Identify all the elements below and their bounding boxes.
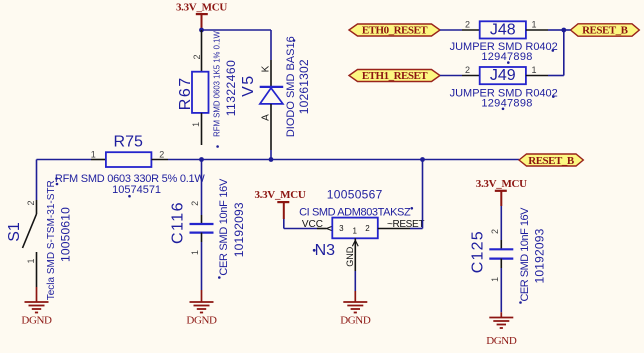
capacitor C125 bbox=[470, 206, 547, 304]
svg-text:1: 1 bbox=[190, 250, 200, 255]
power 3.3V_MCU above N3 bbox=[254, 189, 305, 219]
ground DGND under N3 bbox=[340, 291, 371, 326]
svg-text:12947898: 12947898 bbox=[481, 51, 532, 63]
svg-text:2: 2 bbox=[490, 229, 500, 234]
svg-text:12947898: 12947898 bbox=[481, 98, 532, 110]
svg-text:DGND: DGND bbox=[340, 314, 371, 326]
wire J48 pin1 to node bbox=[526, 29, 548, 31]
svg-text:CI SMD ADM803TAKSZ: CI SMD ADM803TAKSZ bbox=[299, 207, 411, 219]
svg-text:3: 3 bbox=[339, 224, 344, 233]
wire 3.3V to N3 VCC bbox=[283, 219, 285, 229]
svg-text:1: 1 bbox=[490, 277, 500, 282]
wire N3 ~RESET up to rail node bbox=[378, 228, 410, 230]
node junction at top of R67 bbox=[199, 28, 204, 33]
svg-text:K: K bbox=[261, 65, 272, 72]
svg-text:RFM SMD 0603 1K5 1% 0.1W: RFM SMD 0603 1K5 1% 0.1W bbox=[212, 30, 221, 136]
ground DGND under C125 bbox=[486, 312, 517, 347]
svg-text:S1: S1 bbox=[6, 222, 23, 242]
wire V5 bottom to rail bbox=[270, 150, 272, 160]
svg-text:DIODO SMD BAS16: DIODO SMD BAS16 bbox=[285, 36, 297, 137]
svg-text:2: 2 bbox=[192, 54, 202, 59]
wire node to RESET_B flag bbox=[564, 29, 571, 31]
svg-text:1: 1 bbox=[26, 258, 36, 263]
svg-text:3.3V_MCU: 3.3V_MCU bbox=[476, 178, 527, 190]
svg-text:1: 1 bbox=[91, 149, 96, 159]
svg-text:RESET_B: RESET_B bbox=[582, 25, 629, 37]
svg-text:11322460: 11322460 bbox=[224, 60, 238, 117]
svg-text:2: 2 bbox=[190, 201, 200, 206]
op-amp U1 / supervisor IC N3 bbox=[299, 187, 424, 271]
svg-text:VCC: VCC bbox=[302, 219, 323, 230]
power 3.3V_MCU above C125 bbox=[476, 178, 527, 206]
node junction N3 branch bbox=[420, 157, 425, 162]
ground DGND under S1 bbox=[21, 287, 52, 326]
svg-text:3.3V_MCU: 3.3V_MCU bbox=[176, 2, 227, 14]
ground DGND under C116 bbox=[186, 290, 217, 326]
svg-text:ETH0_RESET: ETH0_RESET bbox=[362, 25, 428, 37]
svg-text:CER SMD 10nF 16V: CER SMD 10nF 16V bbox=[218, 178, 230, 276]
wire C125 to ground bbox=[500, 268, 502, 312]
flag RESET_B middle bbox=[519, 154, 583, 167]
svg-text:1: 1 bbox=[191, 122, 201, 127]
jumper J49 bbox=[450, 65, 558, 110]
svg-text:2: 2 bbox=[365, 224, 370, 233]
svg-text:10574571: 10574571 bbox=[112, 184, 161, 196]
wire from R67 top node to V5 top bbox=[202, 29, 272, 31]
wire node down to J49 pin1 bbox=[563, 30, 565, 76]
svg-text:R67: R67 bbox=[177, 76, 194, 110]
diode V5 bbox=[240, 36, 311, 150]
flag ETH0_RESET bbox=[349, 24, 440, 37]
flag ETH1_RESET bbox=[349, 70, 440, 83]
power 3.3V_MCU above R67 bbox=[176, 2, 227, 29]
resistor R75 bbox=[55, 134, 206, 198]
svg-text:2: 2 bbox=[465, 65, 470, 75]
capacitor C116 bbox=[170, 160, 247, 279]
svg-text:10192093: 10192093 bbox=[232, 202, 246, 257]
svg-text:1: 1 bbox=[531, 65, 536, 75]
svg-text:GND: GND bbox=[345, 246, 355, 267]
svg-text:3.3V_MCU: 3.3V_MCU bbox=[254, 189, 305, 201]
wire ETH0_RESET to J48 pin2 bbox=[440, 29, 462, 31]
svg-text:10050567: 10050567 bbox=[327, 187, 383, 201]
svg-text:10261302: 10261302 bbox=[297, 59, 311, 114]
svg-text:Tecla SMD S-TSM-31-STR: Tecla SMD S-TSM-31-STR bbox=[46, 180, 57, 300]
svg-text:DGND: DGND bbox=[186, 314, 217, 326]
svg-text:C125: C125 bbox=[470, 230, 487, 273]
svg-text:DGND: DGND bbox=[486, 335, 517, 347]
wire node to RESET_B flag bbox=[423, 159, 520, 161]
svg-text:J49: J49 bbox=[490, 67, 516, 84]
svg-text:CER SMD 10nF 16V: CER SMD 10nF 16V bbox=[519, 207, 531, 302]
svg-text:A: A bbox=[261, 114, 272, 121]
svg-text:RESET_B: RESET_B bbox=[528, 155, 575, 167]
svg-text:V5: V5 bbox=[240, 74, 257, 97]
svg-text:10192093: 10192093 bbox=[532, 228, 546, 283]
wire N3 GND to ground bbox=[354, 271, 356, 291]
wire V5 top vertical bbox=[270, 30, 272, 60]
svg-text:ETH1_RESET: ETH1_RESET bbox=[362, 70, 428, 82]
flag RESET_B top right bbox=[571, 24, 640, 37]
wire S1 corner to R75 pin1 bbox=[37, 159, 92, 161]
node junction V5 bottom bbox=[269, 157, 274, 162]
svg-text:J48: J48 bbox=[490, 22, 516, 39]
svg-text:N3: N3 bbox=[315, 242, 336, 259]
wire node to V5 bottom node bbox=[202, 159, 272, 161]
wire R75 pin2 to node bbox=[151, 159, 168, 161]
wire C116 to ground bbox=[201, 242, 203, 290]
svg-text:DGND: DGND bbox=[21, 314, 52, 326]
switch S1 bbox=[6, 160, 73, 301]
svg-text:R75: R75 bbox=[114, 134, 143, 151]
resistor R67 bbox=[177, 30, 238, 148]
svg-text:1: 1 bbox=[531, 19, 536, 29]
svg-text:2: 2 bbox=[26, 200, 36, 205]
wire ETH1_RESET to J49 pin2 bbox=[440, 75, 462, 77]
node junction R67 bottom / C116 top bbox=[199, 157, 204, 162]
wire V5 node to N3 branch node bbox=[271, 159, 423, 161]
jumper J48 bbox=[450, 19, 558, 64]
svg-text:C116: C116 bbox=[170, 201, 187, 244]
svg-text:2: 2 bbox=[465, 19, 470, 29]
svg-text:2: 2 bbox=[159, 149, 164, 159]
node junction right of J48 bbox=[561, 28, 566, 33]
svg-text:10050610: 10050610 bbox=[59, 207, 73, 262]
wire J49 pin1 to vertical bbox=[526, 75, 548, 77]
svg-text:1: 1 bbox=[352, 227, 357, 236]
